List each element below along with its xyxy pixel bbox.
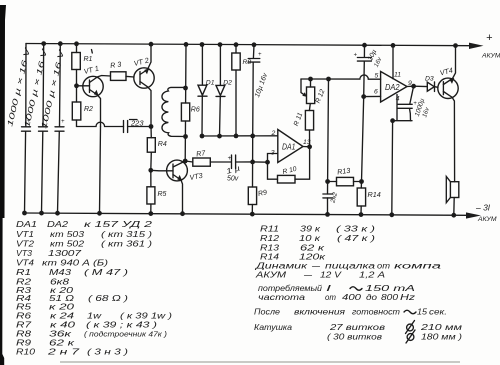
svg-text:62 к: 62 к	[300, 244, 326, 253]
svg-text:R6: R6	[16, 312, 32, 321]
bottom rail	[25, 213, 468, 215]
diode D1	[198, 45, 215, 137]
svg-text:( кт 361 ): ( кт 361 )	[101, 240, 152, 249]
svg-text:( 68 Ω ): ( 68 Ω )	[88, 294, 128, 303]
svg-text:–: –	[310, 262, 321, 271]
capacitor C in3 1000u	[39, 44, 66, 213]
capacitor 10u 16v (right)	[354, 45, 384, 96]
svg-text:к 40: к 40	[50, 321, 76, 330]
svg-text:800: 800	[381, 293, 399, 302]
bottom edge smudge	[60, 361, 460, 363]
capacitor C in1 1000u	[5, 44, 32, 214]
node coil top junction	[183, 86, 188, 91]
node DA1 output junction	[307, 144, 312, 149]
resistor R6	[181, 103, 199, 161]
svg-text:DA1: DA1	[282, 143, 296, 152]
node R12 top junction	[308, 77, 313, 82]
svg-text:2: 2	[271, 130, 276, 137]
capacitor C in2 1000u	[22, 44, 49, 213]
wire VT1 emitter to bottom rail	[100, 127, 101, 214]
svg-text:1w: 1w	[87, 312, 103, 321]
node R13 left junction	[325, 179, 330, 184]
top rail	[26, 44, 470, 46]
node VT2 emitter / 223 / R4	[149, 124, 154, 129]
svg-text:к 24: к 24	[50, 312, 75, 321]
resistor R9	[248, 136, 267, 214]
svg-text:+: +	[258, 52, 262, 58]
capacitor 1000u 16v	[398, 86, 432, 121]
svg-text:VT1: VT1	[16, 230, 34, 239]
svg-text:62 к: 62 к	[49, 339, 76, 348]
svg-text:( 33 к ): ( 33 к )	[336, 225, 376, 234]
svg-text:+: +	[61, 119, 65, 125]
svg-text:R6: R6	[191, 107, 200, 114]
diode D2	[216, 45, 232, 137]
diameter symbol 2	[406, 330, 415, 343]
svg-text:R14: R14	[260, 253, 280, 262]
op-amp DA1	[265, 130, 311, 165]
svg-text:компа: компа	[394, 262, 442, 271]
svg-text:+: +	[486, 32, 493, 44]
svg-text:27 витков: 27 витков	[329, 323, 385, 332]
svg-text:R10: R10	[16, 348, 36, 357]
svg-text:кт 940 А (Б): кт 940 А (Б)	[42, 259, 108, 268]
svg-text:VT4: VT4	[16, 259, 35, 268]
scan border left	[0, 5, 6, 365]
inductor L coil	[162, 87, 185, 136]
wire rail to R6	[185, 44, 187, 103]
node dots top rail	[41, 41, 458, 48]
svg-text:R5: R5	[16, 303, 32, 312]
wire down to R13 left	[328, 79, 329, 194]
svg-text:2 н 7: 2 н 7	[46, 348, 80, 357]
resistor R8	[232, 45, 252, 136]
node DA2 output junction	[411, 84, 416, 89]
svg-text:39 к: 39 к	[300, 225, 322, 234]
svg-text:R12: R12	[260, 234, 280, 243]
svg-text:210 мм: 210 мм	[419, 323, 462, 332]
svg-text:180 мм ): 180 мм )	[421, 333, 462, 342]
svg-text:R2: R2	[84, 106, 93, 113]
svg-text:частота: частота	[258, 293, 306, 302]
svg-text:DA1: DA1	[16, 220, 37, 229]
svg-text:R1: R1	[16, 268, 31, 277]
svg-text:( 30 витков: ( 30 витков	[327, 333, 382, 342]
node VT3 base junction	[148, 168, 153, 173]
node coil bottom junction	[183, 134, 188, 139]
svg-text:кт 502: кт 502	[50, 240, 85, 249]
svg-text:50v: 50v	[227, 176, 239, 183]
capacitor 223	[124, 119, 152, 133]
svg-text:R8: R8	[16, 330, 32, 339]
svg-text:DA2: DA2	[385, 83, 400, 92]
svg-text:15: 15	[417, 308, 428, 317]
svg-text:11: 11	[394, 72, 401, 79]
svg-text:R14: R14	[368, 190, 381, 199]
svg-text:включения: включения	[294, 308, 346, 317]
svg-text:+: +	[354, 53, 358, 59]
svg-text:( М 47 ): ( М 47 )	[84, 268, 129, 277]
transistor VT2	[133, 44, 154, 126]
svg-text:13007: 13007	[48, 249, 82, 258]
component list left column	[16, 220, 172, 357]
svg-text:1,2 А: 1,2 А	[359, 271, 385, 280]
svg-text:АКУМ: АКУМ	[481, 53, 500, 60]
wire DA2 pin6 down	[362, 97, 364, 182]
component list right column	[254, 225, 463, 344]
svg-text:( 3 н 3 ): ( 3 н 3 )	[87, 348, 128, 357]
svg-text:12 V: 12 V	[320, 271, 342, 280]
svg-text:400: 400	[342, 293, 362, 302]
svg-text:D2: D2	[223, 79, 232, 86]
capacitor 10u 16v (left)	[248, 45, 269, 136]
svg-text:АКУМ: АКУМ	[477, 216, 497, 223]
capacitor 1u 50v	[225, 155, 253, 183]
svg-text:5: 5	[375, 73, 379, 80]
svg-text:36к: 36к	[49, 330, 73, 339]
svg-text:R7: R7	[16, 321, 32, 330]
svg-text:( к 39 ; к 43 ): ( к 39 ; к 43 )	[86, 321, 157, 330]
diameter symbol 1	[406, 321, 415, 334]
svg-text:( к 39 1w ): ( к 39 1w )	[120, 312, 172, 321]
node R13 right junction	[359, 179, 364, 184]
op-amp DA2	[361, 45, 413, 102]
svg-text:от: от	[377, 262, 390, 271]
svg-text:R4: R4	[158, 141, 167, 148]
transistor VT3	[151, 160, 204, 214]
svg-text:М43: М43	[49, 268, 72, 277]
node R7/VT3 collector	[183, 159, 188, 164]
svg-text:– 3l: – 3l	[475, 203, 491, 213]
svg-text:потребляемый: потребляемый	[258, 284, 323, 293]
svg-text:–: –	[302, 271, 313, 280]
resistor R14	[357, 182, 380, 215]
wire down to bottom rail	[391, 121, 394, 215]
potentiometer R12	[301, 79, 327, 104]
node R13 branch junction	[326, 77, 331, 82]
svg-text:D3: D3	[425, 76, 434, 83]
svg-text:DA2: DA2	[47, 220, 69, 229]
svg-text:10 к: 10 к	[299, 234, 322, 243]
svg-text:120к: 120к	[299, 253, 327, 262]
svg-text:R5: R5	[158, 191, 167, 198]
resistor R13	[328, 166, 362, 186]
svg-text:R13: R13	[337, 166, 351, 177]
speaker	[446, 177, 459, 216]
svg-text:( подстроечник 47к ): ( подстроечник 47к )	[84, 331, 167, 339]
svg-text:до: до	[366, 293, 378, 302]
svg-text:R13: R13	[260, 244, 280, 253]
svg-text:Динамик: Динамик	[254, 262, 308, 271]
svg-text:АКУМ: АКУМ	[255, 271, 287, 280]
wire 1u to R9/pin3	[253, 161, 268, 163]
capacitor at R13 left	[323, 191, 339, 214]
svg-text:R9: R9	[16, 339, 32, 348]
svg-text:от: от	[325, 293, 336, 302]
svg-text:VT3: VT3	[16, 249, 33, 258]
bus to DA1 pin2	[202, 135, 278, 137]
svg-text:сек.: сек.	[429, 308, 447, 317]
diode D3	[414, 76, 438, 92]
resistor R10 feedback	[268, 147, 310, 183]
svg-text:R11: R11	[260, 225, 279, 234]
svg-text:пищалка: пищалка	[325, 262, 376, 271]
svg-text:R1: R1	[84, 56, 93, 63]
svg-text:R 3: R 3	[110, 60, 122, 70]
resistor R7	[185, 148, 231, 166]
svg-text:Hz: Hz	[400, 293, 415, 302]
transistor VT1	[77, 64, 111, 127]
svg-text:После: После	[254, 308, 281, 317]
svg-text:D1: D1	[206, 80, 215, 87]
node VT1 base junction	[74, 83, 79, 88]
svg-text:кт 503: кт 503	[50, 230, 85, 239]
wire to DA2 pin5	[301, 75, 381, 79]
transistor VT4	[438, 46, 458, 182]
svg-text:( 47 к ): ( 47 к )	[337, 234, 376, 243]
resistor R4	[147, 127, 167, 171]
resistor R1	[72, 44, 93, 86]
svg-text:6: 6	[374, 89, 378, 96]
svg-text:+: +	[228, 155, 232, 162]
svg-text:Катушка: Катушка	[254, 323, 293, 332]
svg-text:готовност: готовност	[352, 308, 400, 317]
resistor R11	[293, 104, 314, 147]
resistor R3	[110, 60, 134, 81]
svg-text:150 mA: 150 mA	[365, 284, 415, 293]
svg-text:к 157 УД 2: к 157 УД 2	[84, 220, 153, 229]
resistor R2	[72, 86, 123, 127]
svg-text:( кт 315 ): ( кт 315 )	[101, 230, 152, 239]
svg-text:VT2: VT2	[16, 240, 35, 249]
pin4 loop	[393, 95, 412, 121]
svg-text:к 20: к 20	[49, 303, 75, 312]
resistor R5	[147, 170, 167, 213]
